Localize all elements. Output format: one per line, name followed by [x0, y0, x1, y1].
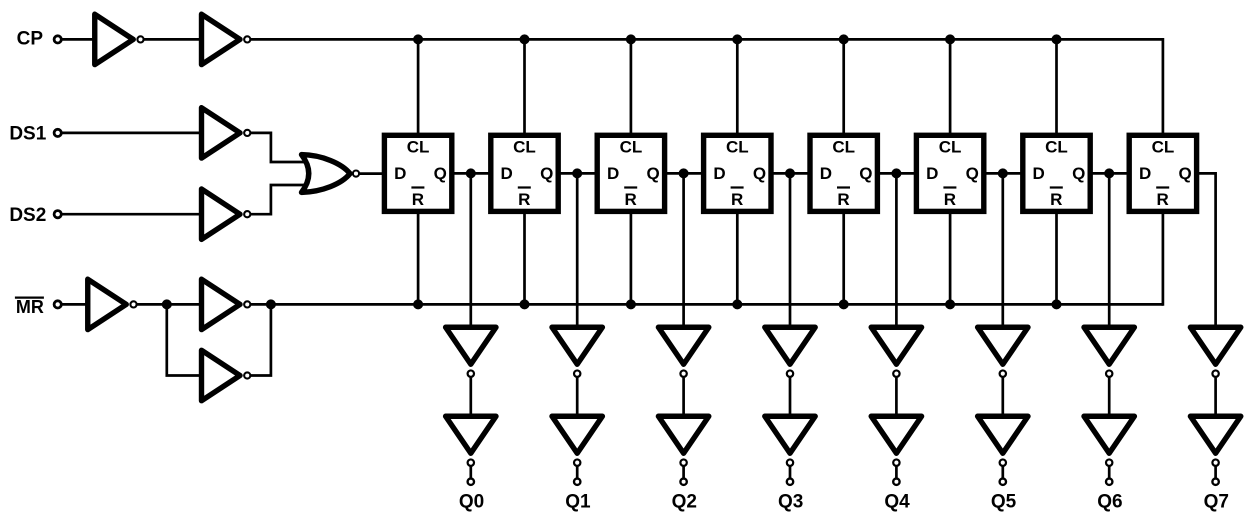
svg-text:DS1: DS1: [9, 124, 46, 145]
wire G1 output to FF1 D: [359, 172, 383, 175]
D flip-flop FF7: [1023, 135, 1090, 211]
wire FF8 Q down to Q7 buffer: [1198, 173, 1215, 326]
svg-text:CL: CL: [620, 138, 643, 157]
wire Q0 tap down to buffer: [469, 173, 472, 326]
inverter U8 (Q0 buffer 1): [446, 327, 496, 377]
inverter U1 (CP buffer 1): [95, 14, 144, 64]
junction MR node at FF2: [520, 299, 530, 309]
wire R drop FF6 to MR bus: [949, 213, 952, 304]
output terminal Q0: [468, 479, 474, 485]
wire MR bus: [271, 303, 1163, 306]
svg-text:Q: Q: [1072, 164, 1085, 183]
inverter U3 (DS1 buffer): [202, 108, 251, 158]
wire DS2 terminal to buffer: [61, 213, 204, 216]
wire Q6 buffer 1 to buffer 2: [1108, 378, 1111, 417]
inverter U16 (Q4 buffer 1): [871, 327, 921, 377]
input terminal DS1: [54, 129, 61, 136]
svg-text:D: D: [607, 164, 619, 183]
wire Q5 buffer 2 to terminal: [1001, 466, 1004, 479]
junction node Q5 tap: [998, 168, 1008, 178]
wire Q4 tap down to buffer: [895, 173, 898, 326]
D flip-flop FF5: [810, 135, 877, 211]
svg-text:Q: Q: [753, 164, 766, 183]
inverter U18 (Q5 buffer 1): [978, 327, 1028, 377]
svg-text:Q: Q: [646, 164, 659, 183]
wire FF1 Q to FF2 D: [454, 172, 490, 175]
svg-text:D: D: [1139, 164, 1151, 183]
wire Q5 buffer 1 to buffer 2: [1001, 378, 1004, 417]
wire U3 output to gate G1 input A: [250, 133, 308, 162]
wire FF5 Q to FF6 D: [879, 172, 915, 175]
wire U1 to U2: [144, 38, 205, 41]
junction CP node at FF4: [732, 34, 742, 44]
svg-text:D: D: [501, 164, 513, 183]
wire R drop FF3 to MR bus: [630, 213, 633, 304]
svg-text:D: D: [820, 164, 832, 183]
wire U5 to U6: [136, 303, 204, 306]
svg-text:Q3: Q3: [778, 492, 803, 513]
wire U6 output to MR bus node: [250, 303, 271, 306]
wire Q2 buffer 1 to buffer 2: [682, 378, 685, 417]
svg-text:R: R: [1050, 190, 1062, 209]
wire MR bus corner up to FF8 R: [1162, 213, 1165, 306]
wire FF7 Q to FF8 D: [1092, 172, 1128, 175]
inverter U14 (Q3 buffer 1): [765, 327, 815, 377]
input terminal CP: [54, 36, 61, 43]
inverter U12 (Q2 buffer 1): [658, 327, 708, 377]
junction node Q4 tap: [891, 168, 901, 178]
inverter U22 (Q7 buffer 1): [1190, 327, 1240, 377]
wire Q3 buffer 2 to terminal: [789, 466, 792, 479]
wire U7 output up to MR bus node: [250, 306, 271, 376]
svg-text:R: R: [944, 190, 956, 209]
svg-text:Q: Q: [540, 164, 553, 183]
svg-text:R: R: [412, 190, 424, 209]
wire FF3 Q to FF4 D: [666, 172, 702, 175]
wire Q2 buffer 2 to terminal: [682, 466, 685, 479]
wire FF6 Q to FF7 D: [986, 172, 1022, 175]
D flip-flop FF8: [1129, 135, 1196, 211]
svg-text:CL: CL: [726, 138, 749, 157]
wire CP terminal to buffer: [61, 38, 95, 41]
inverter U20 (Q6 buffer 1): [1084, 327, 1134, 377]
svg-text:CL: CL: [939, 138, 962, 157]
svg-text:D: D: [1033, 164, 1045, 183]
wire Q1 buffer 1 to buffer 2: [576, 378, 579, 417]
wire CL drop to FF3: [630, 39, 633, 133]
D flip-flop FF1: [384, 135, 451, 211]
wire Q1 tap down to buffer: [576, 173, 579, 326]
wire Q0 buffer 2 to terminal: [469, 466, 472, 479]
inverter U11 (Q1 buffer 2): [552, 416, 602, 466]
junction MR split node: [162, 299, 172, 309]
junction CP node at FF2: [520, 34, 530, 44]
svg-text:Q1: Q1: [565, 492, 591, 513]
wire R drop FF1 to MR bus: [417, 213, 420, 304]
wire DS1 terminal to buffer: [61, 132, 204, 135]
output terminal Q6: [1106, 479, 1112, 485]
junction MR node at FF7: [1052, 299, 1062, 309]
wire Q3 buffer 1 to buffer 2: [789, 378, 792, 417]
junction node Q3 tap: [785, 168, 795, 178]
inverter U6 (MR driver top): [202, 279, 251, 329]
junction MR bus node: [266, 299, 276, 309]
inverter U2 (CP buffer 2): [202, 14, 251, 64]
wire Q4 buffer 1 to buffer 2: [895, 378, 898, 417]
D flip-flop FF4: [704, 135, 771, 211]
input terminal DS2: [54, 211, 61, 218]
wire Q4 buffer 2 to terminal: [895, 466, 898, 479]
inverter U21 (Q6 buffer 2): [1084, 416, 1134, 466]
svg-text:Q: Q: [966, 164, 979, 183]
wire CL drop to FF6: [949, 39, 952, 133]
svg-text:CL: CL: [832, 138, 855, 157]
wire Q6 buffer 2 to terminal: [1108, 466, 1111, 479]
wire Q7 buffer 2 to terminal: [1214, 466, 1217, 479]
svg-text:MR: MR: [16, 297, 44, 317]
NOR gate G1: [302, 155, 360, 193]
svg-text:R: R: [625, 190, 637, 209]
svg-text:Q0: Q0: [459, 492, 484, 513]
wire CL drop to FF5: [842, 39, 845, 133]
wire U4 output to gate G1 input B: [250, 185, 308, 214]
svg-text:Q6: Q6: [1097, 492, 1122, 513]
svg-text:CL: CL: [1152, 138, 1175, 157]
wire MR terminal to buffer: [61, 303, 90, 306]
wire branch down to U7 input: [167, 306, 204, 376]
svg-text:Q: Q: [859, 164, 872, 183]
junction CP node at FF3: [626, 34, 636, 44]
wire R drop FF7 to MR bus: [1055, 213, 1058, 304]
input terminal MR: [54, 301, 61, 308]
svg-text:Q: Q: [1178, 164, 1191, 183]
wire Q6 tap down to buffer: [1108, 173, 1111, 326]
output terminal Q4: [893, 479, 899, 485]
junction MR node at FF6: [945, 299, 955, 309]
junction MR node at FF4: [732, 299, 742, 309]
svg-text:Q2: Q2: [672, 492, 697, 513]
inverter U23 (Q7 buffer 2): [1190, 416, 1240, 466]
svg-text:CL: CL: [1045, 138, 1068, 157]
output terminal Q2: [680, 479, 686, 485]
svg-text:Q4: Q4: [884, 492, 910, 513]
svg-text:D: D: [926, 164, 938, 183]
junction node Q6 tap: [1104, 168, 1114, 178]
svg-text:Q7: Q7: [1204, 492, 1229, 513]
junction node Q0 tap: [466, 168, 476, 178]
output terminal Q1: [574, 479, 580, 485]
wire FF4 Q to FF5 D: [773, 172, 809, 175]
wire CL drop to FF1: [417, 39, 420, 133]
svg-text:R: R: [731, 190, 743, 209]
wire Q7 buffer 1 to buffer 2: [1214, 378, 1217, 417]
inverter U19 (Q5 buffer 2): [978, 416, 1028, 466]
output terminal Q7: [1212, 479, 1218, 485]
inverter U10 (Q1 buffer 1): [552, 327, 602, 377]
inverter U13 (Q2 buffer 2): [658, 416, 708, 466]
wire Q1 buffer 2 to terminal: [576, 466, 579, 479]
wire CL drop to FF4: [736, 39, 739, 133]
junction MR node at FF5: [839, 299, 849, 309]
wire Q0 buffer 1 to buffer 2: [469, 378, 472, 417]
output terminal Q5: [1000, 479, 1006, 485]
label MR (active low, overline): [15, 297, 44, 317]
svg-text:CL: CL: [513, 138, 536, 157]
svg-text:D: D: [394, 164, 406, 183]
wire Q2 tap down to buffer: [682, 173, 685, 326]
svg-text:R: R: [1157, 190, 1169, 209]
junction CP node at FF1: [413, 34, 423, 44]
junction node Q1 tap: [572, 168, 582, 178]
inverter U17 (Q4 buffer 2): [871, 416, 921, 466]
svg-text:Q: Q: [434, 164, 447, 183]
D flip-flop FF2: [491, 135, 558, 211]
inverter U9 (Q0 buffer 2): [446, 416, 496, 466]
D flip-flop FF6: [916, 135, 983, 211]
junction CP node at FF5: [839, 34, 849, 44]
inverter U15 (Q3 buffer 2): [765, 416, 815, 466]
wire FF2 Q to FF3 D: [560, 172, 596, 175]
output terminal Q3: [787, 479, 793, 485]
wire R drop FF4 to MR bus: [736, 213, 739, 304]
wire Q5 tap down to buffer: [1001, 173, 1004, 326]
junction CP node at FF7: [1052, 34, 1062, 44]
svg-text:CP: CP: [17, 29, 44, 50]
wire R drop FF2 to MR bus: [523, 213, 526, 304]
junction CP node at FF6: [945, 34, 955, 44]
svg-text:D: D: [713, 164, 725, 183]
wire CL drop to FF2: [523, 39, 526, 133]
wire R drop FF5 to MR bus: [842, 213, 845, 304]
wire Q3 tap down to buffer: [789, 173, 792, 326]
svg-text:R: R: [837, 190, 849, 209]
svg-text:DS2: DS2: [9, 205, 46, 226]
svg-text:CL: CL: [407, 138, 430, 157]
junction node Q2 tap: [679, 168, 689, 178]
wire CL drop to FF7: [1055, 39, 1058, 133]
svg-text:Q5: Q5: [991, 492, 1017, 513]
inverter U7 (MR driver bottom): [202, 350, 251, 400]
inverter U4 (DS2 buffer): [202, 189, 251, 239]
junction MR node at FF1: [413, 299, 423, 309]
junction MR node at FF3: [626, 299, 636, 309]
wire CP bus: [250, 38, 1163, 41]
wire CP bus corner down to FF8 CL: [1162, 38, 1165, 134]
D flip-flop FF3: [597, 135, 664, 211]
svg-text:R: R: [518, 190, 530, 209]
inverter U5 (MR buffer 1): [88, 279, 137, 329]
